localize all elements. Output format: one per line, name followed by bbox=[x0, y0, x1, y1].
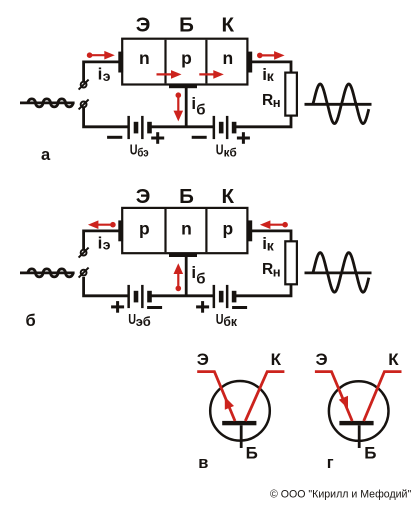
svg-text:Э: Э bbox=[136, 185, 151, 208]
svg-text:i: i bbox=[98, 233, 103, 252]
svg-text:г: г bbox=[327, 454, 334, 472]
svg-text:p: p bbox=[139, 218, 150, 238]
svg-text:n: n bbox=[222, 48, 233, 68]
svg-text:б: б bbox=[196, 270, 205, 287]
svg-text:эб: эб bbox=[136, 315, 151, 329]
svg-text:R: R bbox=[262, 261, 273, 278]
svg-text:н: н bbox=[273, 95, 281, 110]
svg-text:i: i bbox=[98, 65, 103, 84]
svg-text:бк: бк bbox=[223, 315, 237, 329]
svg-text:Б: Б bbox=[179, 14, 194, 37]
svg-text:К: К bbox=[222, 14, 235, 37]
svg-text:н: н bbox=[273, 264, 281, 279]
svg-text:в: в bbox=[198, 454, 208, 472]
svg-text:n: n bbox=[181, 218, 192, 238]
svg-text:Б: Б bbox=[364, 443, 376, 462]
svg-text:б: б bbox=[26, 312, 36, 330]
svg-text:а: а bbox=[41, 146, 51, 164]
svg-text:U: U bbox=[216, 142, 224, 159]
svg-text:Э: Э bbox=[136, 14, 151, 37]
svg-text:к: к bbox=[267, 237, 275, 253]
svg-text:к: к bbox=[267, 68, 275, 84]
svg-text:бэ: бэ bbox=[137, 145, 149, 159]
svg-text:p: p bbox=[222, 218, 233, 238]
svg-text:э: э bbox=[103, 68, 111, 84]
svg-text:К: К bbox=[271, 350, 282, 369]
svg-text:Б: Б bbox=[246, 443, 258, 462]
svg-text:© ООО "Кирилл и Мефодий": © ООО "Кирилл и Мефодий" bbox=[270, 488, 411, 500]
svg-text:R: R bbox=[262, 92, 273, 109]
svg-text:Б: Б bbox=[179, 185, 194, 208]
svg-text:Э: Э bbox=[316, 350, 328, 369]
svg-text:кб: кб bbox=[224, 145, 237, 159]
svg-text:К: К bbox=[222, 185, 235, 208]
svg-text:p: p bbox=[181, 48, 192, 68]
svg-text:Э: Э bbox=[197, 350, 209, 369]
svg-text:б: б bbox=[196, 101, 205, 118]
svg-text:э: э bbox=[103, 237, 111, 253]
svg-text:n: n bbox=[139, 48, 150, 68]
svg-text:К: К bbox=[388, 350, 399, 369]
